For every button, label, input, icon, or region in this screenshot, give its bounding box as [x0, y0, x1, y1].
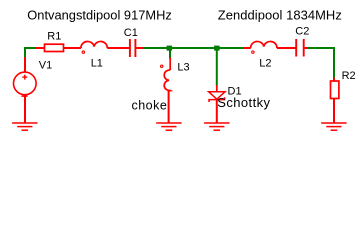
- ground (under V1): [12, 123, 37, 130]
- svg-text:L1: L1: [91, 58, 103, 70]
- label R1: [47, 30, 61, 42]
- label R2: [342, 70, 356, 82]
- ground (under D1): [204, 123, 229, 130]
- svg-text:C1: C1: [124, 27, 138, 39]
- label D1: [228, 85, 242, 97]
- label title Ontvangstdipool 917MHz: [27, 8, 172, 23]
- svg-text:C2: C2: [295, 26, 309, 38]
- svg-text:R1: R1: [47, 30, 61, 42]
- label L2: [259, 57, 271, 69]
- svg-text:Zenddipool 1834MHz: Zenddipool 1834MHz: [218, 8, 342, 23]
- svg-text:Ontvangstdipool 917MHz: Ontvangstdipool 917MHz: [27, 8, 172, 23]
- label title Zenddipool 1834MHz: [218, 8, 342, 23]
- inductor L3 (choke): [161, 58, 171, 124]
- label C2: [295, 26, 309, 38]
- wire: C2 to right corner down to R2: [307, 48, 334, 78]
- inductor L1: [81, 41, 129, 53]
- node junction B (top of D1): [214, 46, 220, 51]
- wire: junction A down to L3: [169, 50, 171, 59]
- resistor R1: [36, 44, 81, 51]
- label choke: [132, 99, 168, 113]
- svg-text:V1: V1: [39, 60, 52, 72]
- inductor L2: [243, 41, 296, 53]
- ground (under R2): [321, 123, 346, 130]
- label L3: [177, 61, 189, 73]
- svg-text:L2: L2: [259, 57, 271, 69]
- wire: junction B down to D1: [216, 50, 218, 86]
- wire: left corner from V1 up to R1: [25, 48, 37, 58]
- label V1: [39, 60, 52, 72]
- capacitor C1: [130, 39, 143, 57]
- svg-text:R2: R2: [342, 70, 356, 82]
- svg-text:L3: L3: [177, 61, 189, 73]
- label Schottky: [217, 95, 270, 110]
- svg-text:Schottky: Schottky: [217, 95, 270, 110]
- voltage source V1: [13, 57, 36, 123]
- wire: C1 to L2 through junctions: [143, 47, 244, 49]
- label L1: [91, 58, 103, 70]
- node junction A (top of L3): [167, 46, 173, 51]
- svg-text:choke: choke: [132, 99, 168, 113]
- capacitor C2: [296, 39, 307, 57]
- ground (under L3): [156, 123, 181, 130]
- resistor R2: [331, 78, 339, 123]
- label C1: [124, 27, 138, 39]
- diode D1 (Schottky): [209, 85, 225, 123]
